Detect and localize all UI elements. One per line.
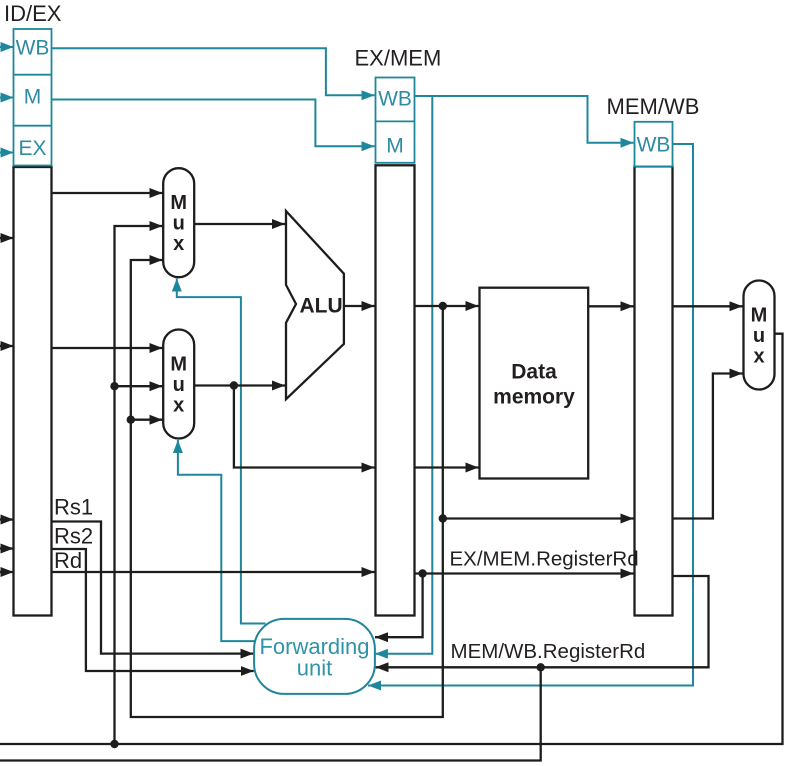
svg-text:Rd: Rd xyxy=(54,548,82,573)
wire Rs2 input into ID/EX xyxy=(0,547,14,549)
svg-text:ID/EX: ID/EX xyxy=(4,1,62,26)
wire Rd into EX/MEM xyxy=(52,571,375,573)
svg-text:WB: WB xyxy=(637,134,671,157)
mux M3 right (write-back mux) xyxy=(744,281,775,390)
junction dot mux2 output xyxy=(230,381,238,389)
svg-text:Rs2: Rs2 xyxy=(54,524,93,549)
svg-text:EX/MEM: EX/MEM xyxy=(355,46,442,71)
wire ALU result into EX/MEM xyxy=(344,305,375,307)
wire WB control input into ID/EX xyxy=(0,46,14,48)
wire ID/EX.M to EX/MEM.M xyxy=(52,100,375,147)
svg-text:memory: memory xyxy=(493,385,575,408)
wire ALU result bypass to MEM/WB xyxy=(443,517,634,519)
svg-text:unit: unit xyxy=(297,656,332,681)
junction dot mux2 input2 xyxy=(127,416,135,424)
svg-text:M: M xyxy=(24,86,42,109)
pipeline register EX/MEM control section xyxy=(376,78,415,163)
svg-text:M: M xyxy=(751,305,768,327)
forwarding unit xyxy=(254,619,375,694)
svg-text:EX: EX xyxy=(18,137,46,160)
wire EX/MEM ALU result to data memory address xyxy=(415,305,479,307)
junction dot ALU bypass xyxy=(439,514,447,522)
data memory xyxy=(480,288,589,479)
wire Rd input into ID/EX xyxy=(0,571,14,573)
wire EX/MEM.RegisterRd branch to forwarding unit xyxy=(375,574,423,638)
wire MEM/WB bypass to Mux right bottom input xyxy=(673,374,743,519)
junction dot EX/MEM.RegisterRd xyxy=(418,569,426,577)
mux M2 bottom (ALU operand B) xyxy=(163,330,194,439)
wire Mux top output to ALU input 1 xyxy=(194,223,285,225)
junction dot ALU result xyxy=(439,302,447,310)
svg-text:EX/MEM.RegisterRd: EX/MEM.RegisterRd xyxy=(450,548,639,571)
svg-text:WB: WB xyxy=(16,37,50,60)
wire register input 2 into ID/EX xyxy=(0,345,14,347)
wire Rs2 to forwarding unit xyxy=(52,549,254,671)
svg-text:x: x xyxy=(753,346,764,368)
wire Rs1 to forwarding unit xyxy=(52,522,254,654)
wire ID/EX to Mux bottom input 0 xyxy=(52,347,163,349)
wire forwarding unit control to Mux top (ForwardA) xyxy=(177,279,266,624)
wire ID/EX.WB to EX/MEM.WB xyxy=(52,48,375,95)
wire EX control input into ID/EX xyxy=(0,152,14,154)
pipeline register EX/MEM black section xyxy=(376,165,415,615)
svg-text:M: M xyxy=(170,354,187,376)
wire forwarding unit control to Mux bottom (ForwardB) xyxy=(178,440,255,641)
wire EX/MEM write data to data memory xyxy=(415,466,479,468)
svg-text:M: M xyxy=(170,192,187,214)
svg-text:u: u xyxy=(173,213,185,235)
wire MEM/WB.RegisterRd branch to bottom left xyxy=(0,667,541,760)
ALU xyxy=(286,211,344,399)
wire WB forwarding vertical up to Mux top input 1 xyxy=(115,226,163,744)
svg-text:u: u xyxy=(753,325,765,347)
svg-text:Rs1: Rs1 xyxy=(54,495,93,520)
junction dot mux2 input1 xyxy=(110,382,118,390)
wire EX/MEM.WB to MEM/WB.WB xyxy=(415,96,634,143)
pipeline register ID/EX black section xyxy=(14,167,52,616)
wire MEM/WB.WB down to forwarding unit xyxy=(368,144,693,686)
pipeline register ID/EX control section xyxy=(14,29,52,166)
pipeline register MEM/WB black section xyxy=(635,166,673,615)
wire Rs1 input into ID/EX xyxy=(0,518,14,520)
svg-text:u: u xyxy=(173,374,185,396)
svg-text:x: x xyxy=(173,395,184,417)
svg-text:ALU: ALU xyxy=(300,295,343,318)
svg-text:MEM/WB: MEM/WB xyxy=(607,94,700,119)
svg-text:WB: WB xyxy=(378,88,412,111)
mux M1 top (ALU operand A) xyxy=(163,168,194,277)
svg-text:Data: Data xyxy=(511,360,557,383)
junction dot bottom bus xyxy=(110,740,118,748)
wire Mux right output feedback along bottom xyxy=(0,334,783,744)
wire MEM/WB.RegisterRd to forwarding unit xyxy=(376,576,709,667)
wire Mux bottom output to ALU input 2 xyxy=(194,384,285,386)
pipeline register MEM/WB control section xyxy=(635,122,673,167)
junction dot MEM/WB.RegisterRd xyxy=(537,663,545,671)
wire M control input into ID/EX xyxy=(0,97,14,99)
wire WB forwarding branch to Mux bottom input 1 xyxy=(115,385,163,387)
wire EX/MEM.RegisterRd to MEM/WB xyxy=(415,572,634,574)
wire EX/MEM forwarding branch to Mux bottom input 2 xyxy=(131,419,163,421)
wire MEM/WB read data to Mux right top input xyxy=(673,305,743,307)
svg-text:x: x xyxy=(173,233,184,255)
wire EX/MEM forwarding path down and up to muxes xyxy=(131,260,443,717)
wire EX/MEM.WB branch down to forwarding unit xyxy=(375,96,432,654)
wire register input 1 into ID/EX xyxy=(0,237,14,239)
wire write data branch into EX/MEM xyxy=(234,386,375,468)
wire ID/EX to Mux top input 0 xyxy=(52,192,163,194)
svg-text:MEM/WB.RegisterRd: MEM/WB.RegisterRd xyxy=(451,640,646,663)
wire data memory read data to MEM/WB xyxy=(588,305,633,307)
svg-text:M: M xyxy=(386,135,404,158)
